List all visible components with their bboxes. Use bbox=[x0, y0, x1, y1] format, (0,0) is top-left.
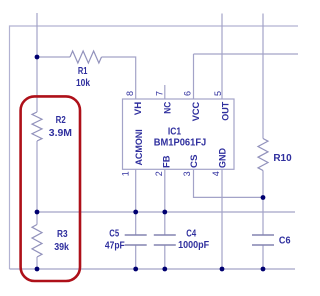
svg-text:VCC: VCC bbox=[191, 102, 202, 122]
svg-text:C6: C6 bbox=[279, 236, 291, 247]
svg-text:C4: C4 bbox=[186, 229, 196, 240]
svg-text:OUT: OUT bbox=[220, 102, 231, 121]
svg-text:2: 2 bbox=[154, 171, 164, 176]
svg-text:1: 1 bbox=[120, 171, 130, 176]
svg-text:4: 4 bbox=[211, 171, 221, 176]
svg-text:10k: 10k bbox=[76, 78, 90, 89]
svg-text:R2: R2 bbox=[56, 115, 66, 126]
svg-text:47pF: 47pF bbox=[105, 240, 125, 251]
svg-text:VH: VH bbox=[133, 102, 144, 116]
svg-text:C5: C5 bbox=[109, 228, 119, 239]
svg-text:R3: R3 bbox=[57, 229, 68, 240]
svg-text:1000pF: 1000pF bbox=[178, 240, 209, 251]
svg-text:39k: 39k bbox=[54, 242, 69, 253]
svg-text:7: 7 bbox=[155, 91, 165, 96]
svg-text:ACMONI: ACMONI bbox=[134, 129, 145, 165]
svg-text:8: 8 bbox=[125, 91, 135, 96]
svg-text:BM1P061FJ: BM1P061FJ bbox=[154, 138, 207, 149]
svg-text:NC: NC bbox=[162, 102, 173, 114]
svg-text:3.9M: 3.9M bbox=[49, 128, 72, 139]
svg-text:R10: R10 bbox=[273, 153, 292, 164]
svg-text:3: 3 bbox=[182, 171, 192, 176]
svg-text:CS: CS bbox=[189, 155, 200, 169]
svg-text:5: 5 bbox=[213, 91, 223, 96]
svg-text:GND: GND bbox=[218, 148, 229, 168]
svg-text:IC1: IC1 bbox=[168, 127, 182, 138]
svg-text:R1: R1 bbox=[78, 66, 88, 77]
svg-text:6: 6 bbox=[183, 91, 193, 96]
svg-text:FB: FB bbox=[162, 155, 173, 168]
